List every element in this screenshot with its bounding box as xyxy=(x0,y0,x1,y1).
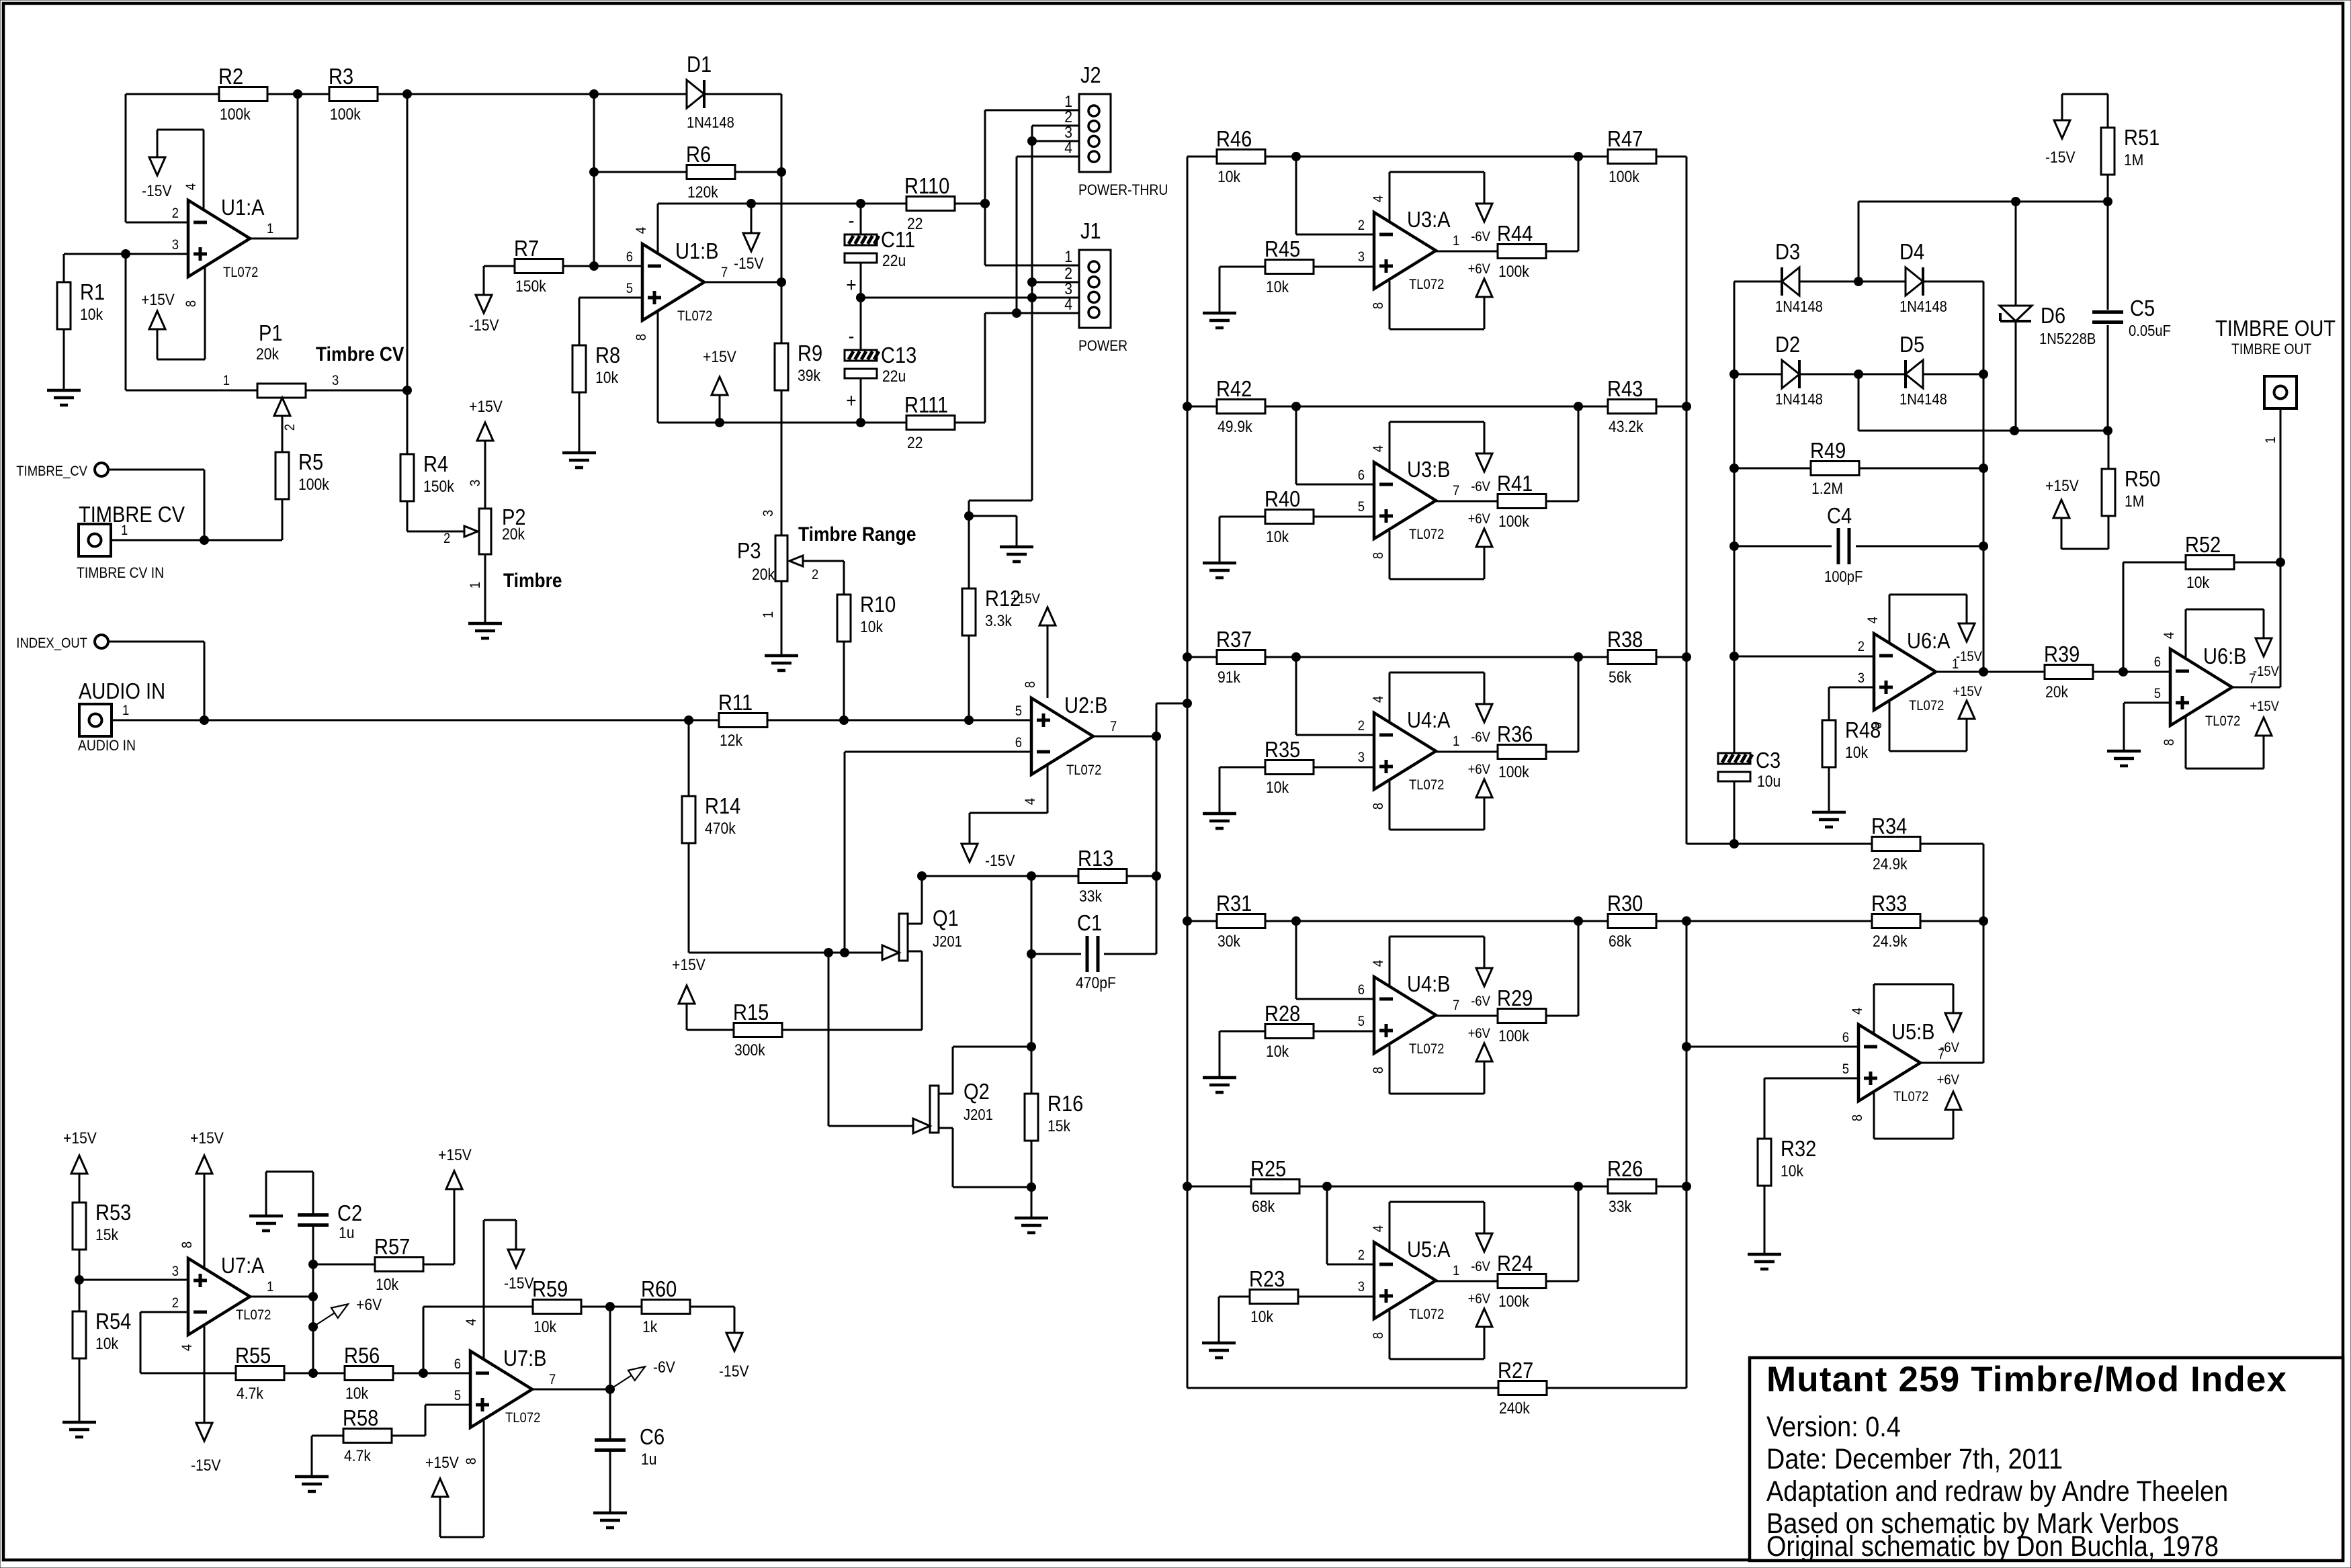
svg-text:U3:A: U3:A xyxy=(1407,207,1451,232)
svg-text:10k: 10k xyxy=(1845,744,1869,762)
svg-text:P1: P1 xyxy=(259,320,283,345)
svg-text:+15V: +15V xyxy=(190,1129,224,1147)
svg-text:8: 8 xyxy=(1371,1067,1386,1074)
svg-text:+15V: +15V xyxy=(672,956,706,974)
svg-text:12k: 12k xyxy=(720,732,743,750)
svg-text:4: 4 xyxy=(1865,617,1881,623)
svg-text:R29: R29 xyxy=(1497,986,1533,1010)
svg-text:8: 8 xyxy=(464,1458,479,1465)
svg-text:-15V: -15V xyxy=(142,182,172,200)
svg-text:10k: 10k xyxy=(1266,1043,1289,1061)
svg-text:R27: R27 xyxy=(1498,1358,1533,1383)
svg-text:1: 1 xyxy=(1453,1263,1459,1278)
svg-text:R36: R36 xyxy=(1497,722,1533,746)
svg-text:1M: 1M xyxy=(2124,151,2143,169)
svg-text:-15V: -15V xyxy=(1956,649,1983,664)
svg-text:-: - xyxy=(849,208,855,231)
svg-text:+6V: +6V xyxy=(1468,1291,1491,1307)
svg-text:7: 7 xyxy=(549,1372,556,1387)
svg-text:10k: 10k xyxy=(95,1335,119,1353)
svg-text:R4: R4 xyxy=(423,451,448,476)
svg-text:+15V: +15V xyxy=(1011,591,1040,607)
svg-text:Adaptation and redraw by Andre: Adaptation and redraw by Andre Theelen xyxy=(1766,1475,2228,1508)
svg-text:R52: R52 xyxy=(2185,532,2221,557)
svg-text:2: 2 xyxy=(1858,639,1865,654)
svg-text:+15V: +15V xyxy=(2250,699,2279,714)
svg-text:-6V: -6V xyxy=(1940,1040,1959,1055)
svg-text:2: 2 xyxy=(812,567,818,582)
svg-text:+6V: +6V xyxy=(1937,1072,1960,1088)
svg-text:C2: C2 xyxy=(337,1201,362,1225)
svg-text:7: 7 xyxy=(1453,998,1459,1013)
svg-text:+15V: +15V xyxy=(425,1454,459,1472)
svg-text:TL072: TL072 xyxy=(1409,1307,1444,1322)
svg-text:TL072: TL072 xyxy=(1893,1089,1928,1104)
svg-text:R49: R49 xyxy=(1810,438,1846,463)
svg-text:R6: R6 xyxy=(686,142,711,167)
svg-text:4: 4 xyxy=(179,1344,195,1351)
svg-text:2: 2 xyxy=(1358,218,1365,233)
svg-text:6: 6 xyxy=(1358,982,1365,998)
svg-text:4: 4 xyxy=(1371,445,1386,452)
svg-text:Mutant 259 Timbre/Mod Index: Mutant 259 Timbre/Mod Index xyxy=(1766,1360,2287,1399)
svg-text:4: 4 xyxy=(1023,798,1038,805)
svg-text:100k: 100k xyxy=(1498,263,1529,281)
svg-text:U4:B: U4:B xyxy=(1407,971,1451,996)
svg-text:+15V: +15V xyxy=(703,348,736,366)
svg-text:5: 5 xyxy=(454,1388,461,1403)
svg-text:R9: R9 xyxy=(798,341,822,365)
svg-text:R34: R34 xyxy=(1871,814,1907,838)
svg-text:30k: 30k xyxy=(1217,932,1241,951)
svg-text:R59: R59 xyxy=(532,1276,568,1301)
svg-text:100pF: 100pF xyxy=(1824,568,1863,586)
svg-text:U6:A: U6:A xyxy=(1907,628,1951,653)
svg-text:R31: R31 xyxy=(1216,891,1252,916)
svg-text:2: 2 xyxy=(282,424,298,431)
svg-text:-15V: -15V xyxy=(191,1456,221,1475)
svg-text:R1: R1 xyxy=(80,279,105,304)
svg-text:R39: R39 xyxy=(2044,642,2080,666)
svg-text:1: 1 xyxy=(267,221,273,236)
svg-text:5: 5 xyxy=(1358,499,1365,515)
svg-text:100k: 100k xyxy=(1498,1027,1529,1045)
svg-text:R5: R5 xyxy=(298,449,323,474)
svg-text:56k: 56k xyxy=(1609,668,1632,687)
svg-text:TIMBRE_CV: TIMBRE_CV xyxy=(16,464,87,479)
svg-text:POWER: POWER xyxy=(1078,338,1127,354)
svg-text:1: 1 xyxy=(761,611,776,618)
svg-text:3: 3 xyxy=(172,1264,179,1279)
svg-text:TL072: TL072 xyxy=(1409,777,1444,793)
svg-text:R54: R54 xyxy=(95,1309,131,1334)
svg-text:10k: 10k xyxy=(1266,779,1289,797)
svg-text:49.9k: 49.9k xyxy=(1217,418,1252,436)
svg-text:100k: 100k xyxy=(330,105,361,124)
svg-text:Q2: Q2 xyxy=(964,1079,990,1104)
svg-text:R26: R26 xyxy=(1607,1156,1643,1181)
svg-text:3: 3 xyxy=(332,373,339,388)
svg-text:1: 1 xyxy=(121,523,128,538)
svg-text:100k: 100k xyxy=(298,476,329,494)
svg-text:TL072: TL072 xyxy=(223,265,258,280)
svg-text:1N4148: 1N4148 xyxy=(687,114,734,132)
svg-text:1u: 1u xyxy=(339,1224,354,1242)
svg-text:1: 1 xyxy=(2263,437,2278,443)
svg-text:1.2M: 1.2M xyxy=(1811,480,1843,498)
svg-text:3: 3 xyxy=(1858,670,1865,686)
svg-text:R56: R56 xyxy=(344,1343,380,1368)
svg-text:8: 8 xyxy=(1869,722,1885,729)
svg-text:3: 3 xyxy=(761,510,776,517)
svg-text:P3: P3 xyxy=(737,538,761,563)
svg-text:-15V: -15V xyxy=(734,255,764,273)
svg-text:U4:A: U4:A xyxy=(1407,707,1451,732)
svg-text:100k: 100k xyxy=(1498,763,1529,781)
svg-text:-6V: -6V xyxy=(1471,229,1490,245)
svg-text:3: 3 xyxy=(1358,750,1365,765)
svg-text:10k: 10k xyxy=(1781,1162,1804,1180)
svg-text:+: + xyxy=(846,388,856,411)
svg-text:4: 4 xyxy=(2162,632,2177,639)
svg-text:-6V: -6V xyxy=(1471,994,1490,1009)
svg-text:C1: C1 xyxy=(1077,910,1102,935)
svg-text:R10: R10 xyxy=(860,592,896,617)
svg-text:3.3k: 3.3k xyxy=(985,612,1013,630)
svg-text:+6V: +6V xyxy=(356,1296,382,1314)
svg-text:R57: R57 xyxy=(374,1234,410,1259)
svg-text:+6V: +6V xyxy=(1468,261,1491,277)
svg-text:+6V: +6V xyxy=(1468,762,1491,777)
svg-text:150k: 150k xyxy=(423,478,454,496)
svg-text:-15V: -15V xyxy=(504,1274,534,1293)
svg-text:10k: 10k xyxy=(345,1385,369,1403)
svg-text:D2: D2 xyxy=(1775,332,1800,357)
svg-text:-15V: -15V xyxy=(469,316,499,335)
svg-text:TL072: TL072 xyxy=(1909,698,1944,713)
svg-text:8: 8 xyxy=(1371,302,1386,309)
svg-text:4: 4 xyxy=(1064,139,1072,157)
svg-text:TL072: TL072 xyxy=(1409,277,1444,292)
svg-text:120k: 120k xyxy=(687,183,718,202)
svg-text:8: 8 xyxy=(1371,552,1386,559)
svg-text:R35: R35 xyxy=(1265,737,1300,762)
svg-text:4: 4 xyxy=(1371,696,1386,703)
svg-text:8: 8 xyxy=(1023,681,1038,688)
svg-text:5: 5 xyxy=(1358,1014,1365,1029)
svg-text:5: 5 xyxy=(2154,686,2161,701)
svg-text:R40: R40 xyxy=(1265,486,1300,511)
svg-text:U7:B: U7:B xyxy=(503,1346,547,1370)
svg-text:10k: 10k xyxy=(80,306,103,324)
svg-text:TL072: TL072 xyxy=(1409,1041,1444,1057)
svg-text:R23: R23 xyxy=(1249,1266,1285,1291)
svg-text:TIMBRE CV: TIMBRE CV xyxy=(79,502,185,527)
svg-text:3: 3 xyxy=(1358,249,1365,265)
svg-text:240k: 240k xyxy=(1499,1399,1530,1418)
svg-text:Original schematic by Don Buch: Original schematic by Don Buchla, 1978 xyxy=(1766,1530,2219,1563)
svg-text:C4: C4 xyxy=(1827,503,1852,528)
svg-text:R58: R58 xyxy=(343,1405,378,1430)
svg-text:100k: 100k xyxy=(1609,168,1639,186)
svg-text:+6V: +6V xyxy=(1468,511,1491,527)
svg-text:R44: R44 xyxy=(1497,221,1533,246)
svg-text:4.7k: 4.7k xyxy=(237,1385,264,1403)
svg-text:R37: R37 xyxy=(1216,627,1252,652)
svg-text:C6: C6 xyxy=(640,1424,665,1449)
svg-text:+: + xyxy=(846,273,856,296)
svg-text:68k: 68k xyxy=(1252,1198,1275,1216)
svg-text:TL072: TL072 xyxy=(1066,763,1101,778)
svg-text:4: 4 xyxy=(1850,1008,1865,1014)
svg-text:C11: C11 xyxy=(881,227,915,252)
svg-text:J201: J201 xyxy=(964,1106,993,1124)
svg-text:R11: R11 xyxy=(718,690,753,715)
svg-text:2: 2 xyxy=(443,531,450,546)
svg-text:470pF: 470pF xyxy=(1076,974,1116,992)
svg-text:TL072: TL072 xyxy=(505,1410,540,1426)
svg-text:3: 3 xyxy=(468,480,483,486)
svg-text:R33: R33 xyxy=(1871,891,1907,916)
svg-text:R111: R111 xyxy=(904,392,948,417)
svg-text:10k: 10k xyxy=(533,1318,557,1336)
svg-text:1: 1 xyxy=(468,582,483,589)
svg-text:4: 4 xyxy=(634,227,649,234)
svg-text:1: 1 xyxy=(1453,734,1459,749)
svg-text:1k: 1k xyxy=(642,1318,658,1336)
svg-text:24.9k: 24.9k xyxy=(1873,855,1908,873)
svg-text:U5:B: U5:B xyxy=(1891,1019,1935,1044)
svg-text:POWER-THRU: POWER-THRU xyxy=(1078,182,1168,198)
svg-text:R13: R13 xyxy=(1078,846,1113,871)
svg-text:7: 7 xyxy=(1453,483,1459,498)
svg-text:C3: C3 xyxy=(1756,748,1781,773)
svg-text:8: 8 xyxy=(183,300,199,307)
svg-text:1N4148: 1N4148 xyxy=(1775,298,1823,316)
svg-text:150k: 150k xyxy=(515,277,546,296)
svg-text:R2: R2 xyxy=(218,64,243,89)
svg-text:15k: 15k xyxy=(1048,1117,1071,1135)
svg-text:10k: 10k xyxy=(860,618,884,636)
svg-text:R45: R45 xyxy=(1265,236,1300,261)
svg-text:R8: R8 xyxy=(595,343,620,367)
svg-text:5: 5 xyxy=(626,281,633,296)
svg-text:TL072: TL072 xyxy=(2205,713,2240,729)
svg-text:Date: December 7th, 2011: Date: December 7th, 2011 xyxy=(1766,1442,2063,1475)
svg-text:10k: 10k xyxy=(376,1276,399,1294)
svg-text:470k: 470k xyxy=(705,820,736,838)
svg-text:+15V: +15V xyxy=(141,291,175,309)
svg-text:U7:A: U7:A xyxy=(221,1253,265,1278)
svg-text:U1:A: U1:A xyxy=(221,195,265,220)
svg-text:2: 2 xyxy=(172,206,179,221)
svg-text:Timbre Range: Timbre Range xyxy=(798,522,916,545)
svg-text:U2:B: U2:B xyxy=(1064,693,1108,717)
svg-text:D1: D1 xyxy=(687,52,712,77)
svg-text:+15V: +15V xyxy=(1953,684,1982,699)
svg-text:U1:B: U1:B xyxy=(675,238,719,263)
svg-text:R41: R41 xyxy=(1497,471,1533,496)
svg-text:-15V: -15V xyxy=(2253,664,2280,679)
svg-text:R7: R7 xyxy=(514,236,539,261)
svg-text:3: 3 xyxy=(1358,1279,1365,1295)
svg-text:6: 6 xyxy=(2154,654,2161,670)
svg-text:0.05uF: 0.05uF xyxy=(2129,322,2171,340)
svg-text:Timbre: Timbre xyxy=(503,568,562,591)
svg-text:6: 6 xyxy=(626,249,633,265)
svg-text:AUDIO IN: AUDIO IN xyxy=(79,679,165,703)
svg-text:R15: R15 xyxy=(733,1000,769,1025)
svg-text:91k: 91k xyxy=(1217,668,1241,687)
svg-text:R110: R110 xyxy=(904,173,949,198)
svg-text:10k: 10k xyxy=(2186,574,2210,592)
svg-text:1: 1 xyxy=(267,1279,273,1295)
svg-text:U5:A: U5:A xyxy=(1407,1237,1451,1262)
svg-text:TL072: TL072 xyxy=(677,308,712,324)
svg-text:D5: D5 xyxy=(1899,332,1924,357)
svg-text:R16: R16 xyxy=(1048,1091,1083,1116)
svg-text:100k: 100k xyxy=(1498,1293,1529,1311)
svg-text:33k: 33k xyxy=(1609,1198,1632,1216)
svg-text:TIMBRE OUT: TIMBRE OUT xyxy=(2215,316,2336,341)
svg-text:1: 1 xyxy=(223,373,230,388)
svg-text:J201: J201 xyxy=(933,932,962,951)
svg-text:R47: R47 xyxy=(1607,126,1643,151)
svg-text:TIMBRE OUT: TIMBRE OUT xyxy=(2231,341,2312,357)
svg-text:R46: R46 xyxy=(1216,126,1252,151)
svg-text:R30: R30 xyxy=(1607,891,1643,916)
svg-text:20k: 20k xyxy=(752,566,775,584)
svg-text:R28: R28 xyxy=(1265,1001,1300,1026)
svg-text:Timbre CV: Timbre CV xyxy=(316,342,404,365)
svg-text:R50: R50 xyxy=(2125,466,2160,491)
svg-text:J1: J1 xyxy=(1080,218,1101,243)
svg-text:R48: R48 xyxy=(1845,717,1881,742)
svg-text:8: 8 xyxy=(1371,803,1386,810)
svg-text:6: 6 xyxy=(1015,735,1022,750)
svg-text:R42: R42 xyxy=(1216,376,1252,401)
svg-text:1N5228B: 1N5228B xyxy=(2039,330,2096,348)
svg-text:8: 8 xyxy=(2162,739,2177,746)
svg-text:7: 7 xyxy=(1110,719,1117,734)
svg-text:D4: D4 xyxy=(1899,239,1924,264)
svg-text:R53: R53 xyxy=(95,1200,131,1225)
svg-text:100k: 100k xyxy=(220,105,251,124)
svg-text:-6V: -6V xyxy=(1471,730,1490,745)
svg-text:R60: R60 xyxy=(641,1276,677,1301)
svg-text:1M: 1M xyxy=(2125,492,2144,511)
svg-text:2: 2 xyxy=(1358,718,1365,734)
svg-text:Q1: Q1 xyxy=(933,906,959,930)
svg-text:8: 8 xyxy=(179,1242,195,1248)
svg-text:4: 4 xyxy=(1371,1225,1386,1232)
svg-text:R3: R3 xyxy=(329,64,353,89)
svg-text:Version: 0.4: Version: 0.4 xyxy=(1766,1410,1901,1443)
svg-text:+15V: +15V xyxy=(2045,477,2079,495)
svg-text:10k: 10k xyxy=(1250,1308,1274,1326)
svg-text:+15V: +15V xyxy=(469,398,503,416)
svg-text:-6V: -6V xyxy=(1471,479,1490,494)
svg-text:10k: 10k xyxy=(1217,168,1241,186)
svg-text:20k: 20k xyxy=(502,525,525,543)
svg-text:D6: D6 xyxy=(2041,303,2065,328)
svg-text:R51: R51 xyxy=(2124,125,2160,150)
svg-text:AUDIO IN: AUDIO IN xyxy=(78,738,136,754)
svg-text:8: 8 xyxy=(1850,1115,1865,1121)
svg-text:1N4148: 1N4148 xyxy=(1775,390,1823,408)
svg-text:C13: C13 xyxy=(881,343,916,367)
svg-text:22u: 22u xyxy=(882,252,906,270)
svg-text:R24: R24 xyxy=(1497,1251,1533,1276)
svg-text:-15V: -15V xyxy=(985,852,1015,870)
svg-text:10u: 10u xyxy=(1757,773,1781,791)
svg-text:R38: R38 xyxy=(1607,627,1643,652)
svg-text:-: - xyxy=(849,324,855,347)
svg-text:6: 6 xyxy=(454,1356,461,1372)
svg-text:TL072: TL072 xyxy=(1409,527,1444,542)
svg-text:TL072: TL072 xyxy=(236,1307,271,1323)
svg-text:20k: 20k xyxy=(256,345,280,363)
svg-text:300k: 300k xyxy=(734,1041,765,1059)
svg-text:4: 4 xyxy=(1064,296,1072,314)
svg-text:33k: 33k xyxy=(1079,887,1103,906)
svg-text:R25: R25 xyxy=(1250,1156,1286,1181)
svg-text:4: 4 xyxy=(1371,195,1386,202)
svg-text:5: 5 xyxy=(1842,1061,1849,1077)
svg-text:-15V: -15V xyxy=(719,1362,749,1381)
svg-text:7: 7 xyxy=(721,265,728,280)
svg-text:6: 6 xyxy=(1358,468,1365,483)
svg-text:-6V: -6V xyxy=(653,1358,675,1377)
svg-text:TIMBRE CV IN: TIMBRE CV IN xyxy=(77,565,164,581)
svg-text:R32: R32 xyxy=(1781,1136,1816,1161)
svg-text:3: 3 xyxy=(172,237,179,253)
svg-text:1: 1 xyxy=(1064,248,1072,266)
svg-text:15k: 15k xyxy=(95,1226,119,1244)
svg-text:10k: 10k xyxy=(1266,278,1289,296)
svg-text:+6V: +6V xyxy=(1468,1026,1491,1041)
svg-text:4.7k: 4.7k xyxy=(344,1447,372,1465)
svg-text:10k: 10k xyxy=(1266,528,1289,546)
svg-text:1N4148: 1N4148 xyxy=(1899,390,1947,408)
svg-text:R55: R55 xyxy=(235,1343,271,1368)
svg-text:1: 1 xyxy=(122,703,129,718)
svg-text:24.9k: 24.9k xyxy=(1873,932,1908,951)
svg-text:-6V: -6V xyxy=(1471,1259,1490,1274)
svg-text:1u: 1u xyxy=(641,1450,656,1469)
svg-text:C5: C5 xyxy=(2130,296,2155,320)
svg-text:+15V: +15V xyxy=(63,1129,97,1147)
svg-text:4: 4 xyxy=(1371,960,1386,967)
svg-text:2: 2 xyxy=(1358,1248,1365,1263)
svg-text:8: 8 xyxy=(634,334,649,341)
svg-text:R14: R14 xyxy=(705,793,740,818)
svg-text:22u: 22u xyxy=(882,367,906,386)
svg-text:4: 4 xyxy=(464,1319,479,1325)
svg-text:-15V: -15V xyxy=(2045,148,2076,167)
svg-text:6: 6 xyxy=(1842,1030,1849,1045)
svg-text:R43: R43 xyxy=(1607,376,1643,401)
svg-text:43.2k: 43.2k xyxy=(1609,418,1643,436)
svg-text:22: 22 xyxy=(907,434,923,452)
svg-text:20k: 20k xyxy=(2045,683,2069,701)
svg-text:D3: D3 xyxy=(1775,239,1800,264)
svg-text:+15V: +15V xyxy=(438,1146,472,1164)
svg-text:U3:B: U3:B xyxy=(1407,457,1451,482)
svg-text:4: 4 xyxy=(183,183,199,190)
svg-text:INDEX_OUT: INDEX_OUT xyxy=(16,636,87,651)
svg-text:U6:B: U6:B xyxy=(2203,644,2247,668)
